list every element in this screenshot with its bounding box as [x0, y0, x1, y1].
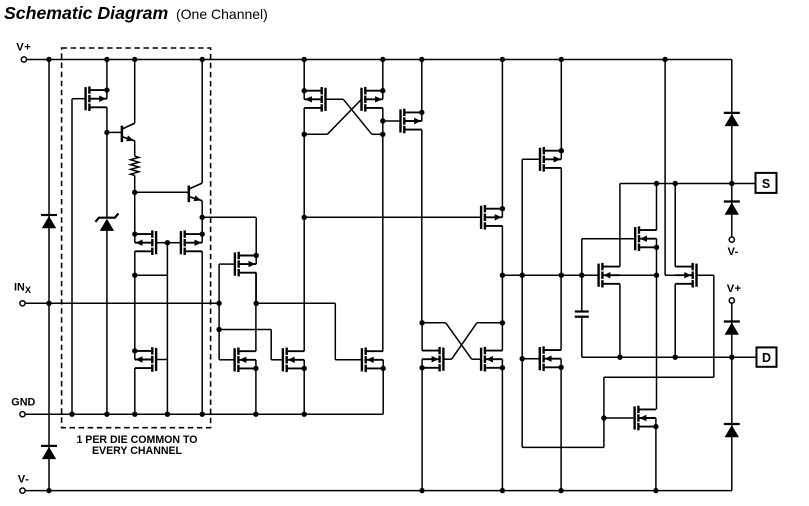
svg-text:1 PER DIE COMMON TO: 1 PER DIE COMMON TO [76, 434, 197, 446]
svg-text:(One Channel): (One Channel) [176, 6, 268, 22]
svg-text:V+: V+ [727, 283, 742, 295]
svg-text:S: S [762, 177, 770, 191]
svg-text:Schematic Diagram: Schematic Diagram [4, 3, 168, 23]
svg-text:D: D [762, 351, 771, 365]
svg-text:GND: GND [11, 396, 35, 408]
svg-text:V+: V+ [16, 42, 31, 54]
svg-text:V-: V- [728, 246, 739, 258]
svg-text:EVERY CHANNEL: EVERY CHANNEL [92, 445, 183, 457]
svg-text:V-: V- [18, 474, 30, 486]
